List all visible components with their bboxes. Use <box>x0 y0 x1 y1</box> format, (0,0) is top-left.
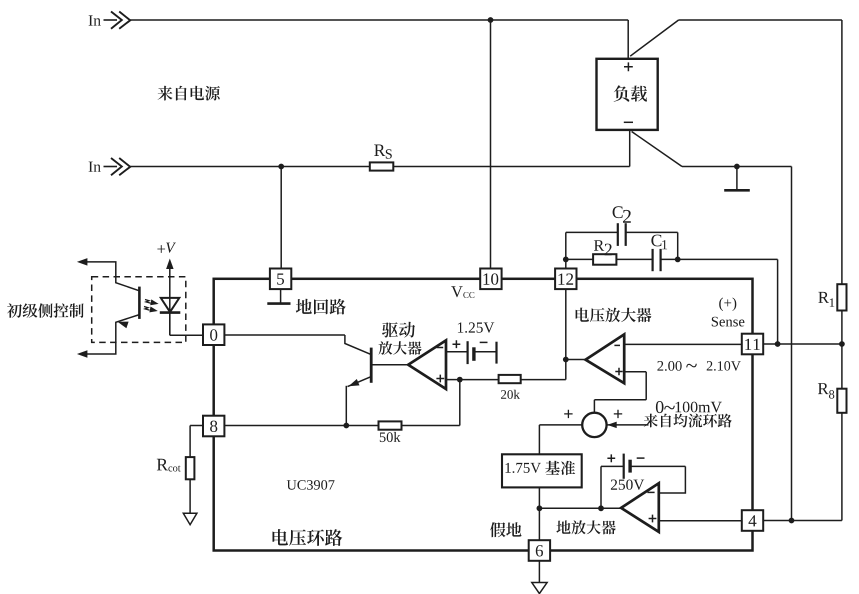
junction pin12/R2 node <box>563 257 569 263</box>
wire vamp+ right <box>624 371 646 373</box>
gamp minus <box>647 491 654 493</box>
ground 地回路 symbol <box>267 289 290 304</box>
label 负载 <box>614 85 647 101</box>
wire pin12 up <box>565 232 567 268</box>
wire 20k to vamp node <box>521 379 566 381</box>
ground (earth bar) <box>724 167 750 191</box>
label 来自均流环路 <box>644 414 732 428</box>
wire right drop to pin4 row <box>791 167 793 521</box>
label 50k <box>380 432 401 442</box>
pin 8 <box>203 416 224 437</box>
junction pin4/sense drop <box>789 518 795 524</box>
wire pin6 down <box>538 561 540 583</box>
label 0~100mV <box>656 401 664 413</box>
junction pin11/rail <box>839 341 845 347</box>
wire network to right corner <box>678 258 778 260</box>
wire 250V up <box>600 466 602 508</box>
label 初级侧控制 <box>7 303 84 318</box>
wire summer left <box>539 424 582 426</box>
wire load- vertical <box>629 130 631 167</box>
wire load+ vertical <box>627 20 629 59</box>
resistor R1 <box>837 284 846 310</box>
wire C2 down join <box>677 232 679 259</box>
battery 250V plus <box>607 454 615 462</box>
battery 250V <box>601 454 685 479</box>
wire vamp output <box>566 359 586 361</box>
pin 4 <box>742 510 763 531</box>
Q2 emitter <box>81 315 139 354</box>
wire Rcot bottom <box>189 479 191 513</box>
arrow collector out <box>77 258 88 266</box>
wire RS to load- <box>393 166 629 168</box>
capacitor C1 <box>653 249 661 271</box>
wire current share arrow <box>607 424 649 426</box>
light arrows <box>144 299 159 312</box>
label 20k <box>501 390 520 399</box>
wire vamp node up <box>565 360 567 380</box>
drive amp plus <box>436 375 444 383</box>
junction 20k/50k node <box>457 377 463 383</box>
summer plus right <box>614 410 622 418</box>
label 电压放大器 <box>576 308 652 323</box>
optocoupler dashed box <box>92 277 186 343</box>
wire 20k row <box>460 379 499 381</box>
label R1 <box>818 292 829 303</box>
junction top wire / Vcc <box>488 17 494 23</box>
wire pin12 down to vamp out <box>565 289 567 359</box>
wire ref box down <box>538 487 540 540</box>
label R2 <box>594 240 604 251</box>
load + terminal <box>624 62 633 71</box>
wire pin5 drop <box>280 167 282 269</box>
gamp plus <box>649 515 657 523</box>
pin 5 <box>270 269 291 290</box>
node In (bottom input) <box>89 162 101 172</box>
vamp plus <box>615 368 622 375</box>
wire pin11 to rail <box>763 343 842 345</box>
junction emitter/50k row <box>343 423 349 429</box>
resistor Rcot <box>186 457 195 479</box>
wire pin8 row to 50k <box>224 425 378 427</box>
wire load- to right corner <box>682 166 792 168</box>
wire vamp+ down <box>645 372 647 400</box>
label 假地 <box>490 522 521 537</box>
label UC3907 <box>287 480 335 490</box>
transistor Q1 base bar <box>370 348 373 383</box>
wire gamp+ to pin4 <box>659 520 742 522</box>
label Rcot <box>157 459 168 471</box>
wire top In to load+ <box>130 19 628 21</box>
resistor 20k <box>499 375 521 383</box>
label 1.25V <box>458 322 494 332</box>
pin 0 <box>203 324 224 345</box>
wire load- diagonal <box>632 132 682 167</box>
pin 11 <box>742 334 763 355</box>
wire 50k to corner <box>402 425 460 427</box>
battery 1.25V <box>468 341 497 364</box>
load - terminal <box>624 121 633 123</box>
wire into summer top <box>593 400 595 413</box>
wire C2 branch left <box>566 231 618 233</box>
wire R2 node to R2 <box>566 258 593 260</box>
label 地放大器 <box>556 520 615 534</box>
label C2 <box>613 206 623 218</box>
IC UC3907 outline <box>214 279 753 551</box>
ground arrow below Rcot <box>183 513 197 525</box>
wire R2 to C1 <box>616 258 652 260</box>
op-amp U3 ground amp <box>621 483 659 532</box>
wire Vcc drop <box>490 20 492 269</box>
wire drive- to battery <box>446 351 468 353</box>
wire load+ diagonal <box>630 20 678 56</box>
label C1 <box>651 235 661 247</box>
junction vamp output node <box>563 357 569 363</box>
Q1 emitter arrow <box>349 379 360 386</box>
wire drive+ to 20k node <box>446 379 460 381</box>
label 1.75V 基准 <box>506 463 541 473</box>
wire C1 to join <box>661 258 678 260</box>
label 来自电源 <box>158 86 220 101</box>
reference box 1.75V <box>502 454 582 487</box>
label 2.00~2.10V <box>657 361 681 371</box>
summer S1 <box>582 413 606 437</box>
wire vamp- to pin11 <box>624 343 742 345</box>
label (+) <box>719 298 736 312</box>
wire pin4 to rail <box>763 520 842 522</box>
op-amp U1 voltage amp <box>586 334 625 383</box>
junction ref/fake gnd <box>537 505 543 511</box>
junction C1/C2 node <box>675 257 681 263</box>
LED D1 <box>160 298 181 313</box>
resistor R2 <box>593 254 616 265</box>
wire fake ground row <box>539 507 621 509</box>
ground arrow below pin6 <box>532 583 547 594</box>
wire network drop to pin11 <box>777 259 779 344</box>
load box <box>597 59 658 130</box>
wire In row left of RS <box>130 166 370 168</box>
label Sense <box>712 317 745 327</box>
pin 12 <box>555 269 576 290</box>
vamp minus <box>614 344 620 346</box>
wire +V supply <box>169 267 171 336</box>
label 驱动 <box>382 322 415 338</box>
wire rail R8 to pin4 row <box>841 413 843 521</box>
drive amp minus <box>437 347 444 349</box>
summer plus left <box>564 410 572 418</box>
label 地回路 <box>296 299 346 315</box>
arrow emitter out <box>77 350 88 358</box>
label +V <box>157 245 165 253</box>
resistor R8 <box>837 389 846 413</box>
Q2 collector <box>81 262 139 291</box>
label RS <box>374 145 385 157</box>
battery 250V minus <box>637 457 645 459</box>
capacitor C2 <box>618 223 626 246</box>
wire 50k up to 20k node <box>459 380 461 426</box>
connector arrow bottom In <box>104 158 131 175</box>
resistor 50k <box>379 421 402 429</box>
pin 6 <box>529 540 550 561</box>
arrow into summer <box>607 422 617 429</box>
junction pin11/network <box>775 341 781 347</box>
wire LED to pin0 <box>169 313 171 336</box>
wire pin0 to Q1 <box>224 334 345 336</box>
Q2 emitter arrow <box>118 322 129 329</box>
wire vamp+ left <box>594 399 646 401</box>
connector arrow top In <box>104 12 131 29</box>
battery 1.25V plus <box>453 340 461 348</box>
wire pin8 left <box>190 425 203 427</box>
battery 1.25V minus <box>480 341 488 343</box>
wire Q1 emitter down <box>345 386 347 426</box>
wire right rail upper <box>841 20 843 284</box>
Q1 emitter diagonal <box>348 377 372 387</box>
pin 10 <box>480 269 501 290</box>
wire drive out to Q1 base <box>372 364 408 366</box>
label R8 <box>818 383 829 394</box>
phototransistor Q2 base bar <box>138 287 141 319</box>
wire C2 branch right <box>626 231 678 233</box>
label 250V <box>611 480 644 490</box>
junction pin5 drop <box>278 164 284 170</box>
label VCC <box>451 286 463 297</box>
resistor RS <box>370 162 394 170</box>
wire down to ref box <box>538 425 540 454</box>
wire 250V down to gamp- <box>659 466 686 493</box>
arrow +V up <box>166 259 174 270</box>
node In (top input) <box>89 15 101 25</box>
junction 250V branch <box>598 505 604 511</box>
op-amp U2 drive amp <box>408 340 446 389</box>
wire rail R1-R8 <box>841 311 843 389</box>
wire top right to rail <box>679 19 842 21</box>
wire Rcot top <box>189 426 191 458</box>
Q1 collector diagonal <box>345 335 371 355</box>
label 放大器(drive) <box>379 341 422 355</box>
label 电压环路 (voltage loop) <box>273 529 343 546</box>
junction ground tap <box>734 164 740 170</box>
